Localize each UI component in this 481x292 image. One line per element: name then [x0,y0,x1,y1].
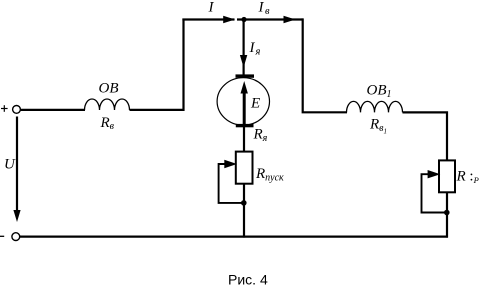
regulator wiper arm [422,174,447,212]
regulator rheostat Rр body [439,160,455,192]
svg-text:Rв1: Rв1 [369,117,387,136]
junction dot top node [241,17,246,22]
EMF arrow E head [241,81,248,94]
svg-text:ОВ: ОВ [99,81,119,97]
svg-text:ОВ1: ОВ1 [367,83,392,101]
svg-text:Rв: Rв [100,115,115,132]
field winding OB1 [347,101,403,112]
wire motor to starter [243,127,245,153]
source voltage arrow U shaft [16,117,18,213]
wire riser left branch [182,19,184,111]
terminal circle positive [13,106,21,114]
bottom bus wire [20,236,448,238]
wire right branch riser [303,18,347,112]
regulator wiper arrow head [428,170,441,178]
top wire right segment [237,18,303,20]
top wire left segment [182,18,234,20]
svg-text:I: I [208,0,215,16]
wire OB to corner [130,109,185,111]
svg-text:Rя: Rя [253,127,268,145]
starter rheostat Rпуск body [236,152,253,184]
wire OB1 to regulator [403,112,448,161]
svg-text:Rпуск: Rпуск [255,166,284,184]
junction dot starter wiper [241,200,247,206]
svg-text:Iв: Iв [258,0,271,17]
svg-text:R :Р: R :Р [456,169,479,186]
wire armature branch [243,20,245,76]
svg-text:Iя: Iя [249,40,261,58]
svg-text:Рис. 4: Рис. 4 [228,272,268,288]
terminal label minus [0,235,4,237]
current arrow Iв [284,16,296,23]
current arrow Iя [240,55,247,68]
svg-text:E: E [250,96,260,112]
svg-text:U: U [4,157,16,173]
EMF arrow E shaft [243,92,246,126]
starter wiper arm [219,164,244,203]
source voltage arrow U head [13,210,20,222]
wire regulator to bus [446,192,448,237]
junction dot regulator wiper [444,210,450,216]
motor brush top [236,74,255,77]
motor brush bottom [236,124,254,127]
wire starter to bus [243,184,245,238]
terminal label plus [1,105,8,112]
motor armature circle [217,78,269,125]
field winding OB [85,99,130,110]
current arrow I [223,16,235,23]
wire terminal to OB [21,109,85,111]
starter wiper arrow head [224,160,237,168]
terminal circle negative [12,233,20,241]
